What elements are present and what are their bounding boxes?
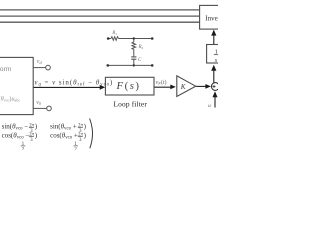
matrix row2 col1: cos(theta_vco - 2pi/3) [2,132,38,144]
svg-text:orm: orm [0,66,12,73]
wire top rail left segment [108,38,111,40]
matrix row1 col2: sin(theta_vco + 2pi/3) [50,123,87,135]
node summing junction (circle with plus) [211,83,219,91]
matrix big closing parenthesis [90,119,93,149]
node junction bottom rail [133,64,135,66]
svg-text:Loop filter: Loop filter [114,99,148,108]
wire vF(t) from loop filter to gain K with arrowhead [154,85,176,90]
svg-text:vF(t): vF(t) [156,79,167,86]
svg-text:vd: vd [37,59,43,65]
svg-text:R2: R2 [138,45,144,50]
wire phase b (3-phase bus line 2) [0,15,200,17]
wire between R2 and C [133,49,135,56]
wire below C to bottom rail [133,59,135,65]
svg-text:Inverter: Inverter [205,14,218,22]
svg-text:(θvco)uabc: (θvco)uabc [0,96,20,103]
wire from gain K apex to summing node with arrowhead [196,84,211,89]
wire top rail right segment [119,38,153,40]
matrix row1 col1: sin(theta_vco - 2pi/3) [2,123,38,135]
svg-text:sin(θvco −: sin(θvco − [2,123,29,132]
svg-text:v0: v0 [36,100,41,106]
wire arrow omega-f into summing node from below [213,91,218,107]
wire vertical branch upper [133,39,135,43]
matrix row2 col2: cos(theta_vco + 2pi/3) [50,132,87,144]
node terminal dots of RC circuit [107,37,154,66]
svg-text:F(s): F(s) [116,80,141,92]
wire arrow from integrator up into Inverter [211,30,216,45]
matrix row3 col2: 1/2 [74,142,78,153]
svg-text:cos(θvco +: cos(θvco + [50,132,78,141]
wire vd output with open terminal [33,65,50,70]
block integrator 1/s (cut off at right edge) [207,45,227,64]
resistor R2 (vertical zigzag) [132,42,136,49]
wire v0 output with open terminal [33,106,51,111]
svg-text:cos(θvco −: cos(θvco − [2,132,30,141]
amplifier K (gain triangle) [177,76,196,97]
wire vq from transform block into loop filter with arrowhead [33,85,105,90]
block abc-dq0 transform (cut off at left edge) [0,57,33,114]
svg-text:ω: ω [208,103,212,109]
block Inverter (cut off at right edge) [200,5,229,29]
RC loop-filter circuit: top rail with terminals [108,37,152,66]
svg-text:sin(θvco +: sin(θvco + [50,123,77,132]
block loop filter F(s) [105,77,154,95]
node junction top rail [133,37,135,39]
wire bottom rail [108,64,152,66]
resistor R1 (horizontal zigzag) [111,37,119,41]
matrix row3 col1: 1/2 [21,142,25,153]
wire phase a (3-phase bus line 1) [0,9,200,11]
svg-text:R1: R1 [111,31,117,36]
wire arrow from summing node up into integrator [211,65,216,83]
capacitor C plates [131,56,136,58]
wire phase c (3-phase bus line 3) [0,21,200,23]
